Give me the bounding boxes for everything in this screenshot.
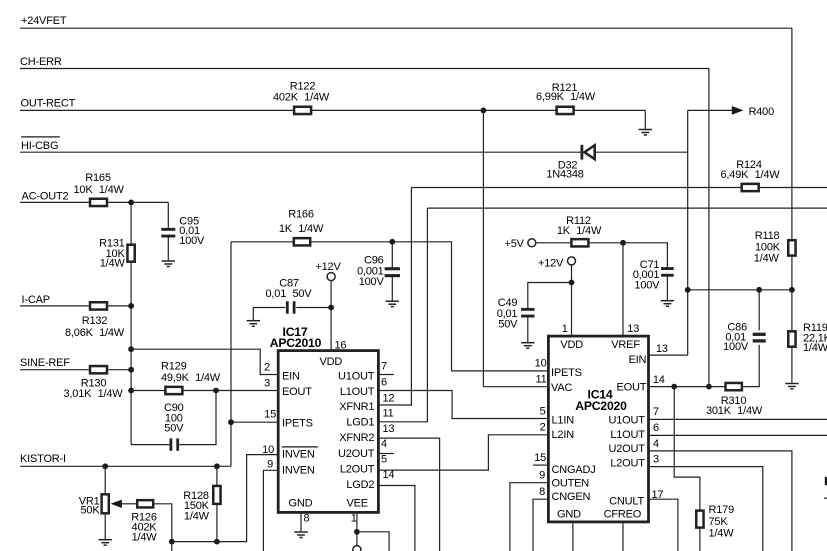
- wire pin13 XFNR2 down: [378, 438, 439, 551]
- wire VREF stem: [622, 243, 624, 336]
- wire IPETS vertical: [230, 242, 232, 466]
- svg-text:3: 3: [264, 377, 270, 389]
- wire pin11 LGD1 up to right edge: [378, 208, 427, 422]
- svg-text:5: 5: [540, 405, 546, 417]
- svg-text:7: 7: [653, 406, 659, 418]
- wire R166 to IC14 IPETS: [311, 242, 548, 371]
- ground below C95: [162, 260, 175, 262]
- wire +12V to VDD pin 1: [571, 265, 573, 337]
- svg-text:14: 14: [653, 374, 665, 386]
- node R118 bottom junction: [789, 287, 795, 293]
- wire VR1 top: [104, 466, 106, 494]
- svg-text:EOUT: EOUT: [617, 382, 647, 394]
- wire EOUT pin 14 to R310: [649, 386, 725, 388]
- svg-text:6: 6: [381, 376, 387, 388]
- wire R124 line: [411, 187, 827, 189]
- svg-text:I-CAP: I-CAP: [22, 294, 50, 306]
- svg-text:100V: 100V: [179, 235, 205, 247]
- potentiometer VR1: [102, 494, 109, 513]
- ground below R119: [785, 383, 798, 385]
- wire R310 to C86: [743, 345, 759, 387]
- svg-text:100K: 100K: [755, 241, 781, 253]
- wire KISTOR-I rail: [20, 465, 231, 467]
- wire junction to C49: [528, 283, 572, 310]
- wire EIN pin 13: [649, 354, 688, 356]
- wire R121 to ground: [574, 109, 645, 111]
- resistor R131: [127, 245, 134, 262]
- svg-text:VEE: VEE: [347, 497, 368, 509]
- node C87 junction: [328, 305, 334, 311]
- svg-text:402K 1/4W: 402K 1/4W: [273, 92, 330, 104]
- ground below IC17 pin 8: [294, 531, 307, 533]
- svg-text:EIN: EIN: [629, 354, 647, 366]
- svg-text:VAC: VAC: [551, 382, 572, 394]
- wire C96 stem bottom: [391, 276, 393, 301]
- wire OUT-RECT rail middle: [312, 109, 556, 111]
- ground after R121: [639, 129, 652, 131]
- ground below C96: [386, 300, 399, 302]
- node EOUT/CH-ERR junction: [706, 384, 712, 390]
- resistor R310: [726, 383, 742, 390]
- wire C96 stem top: [391, 242, 393, 269]
- svg-text:L1OUT: L1OUT: [610, 429, 645, 441]
- svg-text:7: 7: [381, 361, 387, 373]
- svg-text:R129: R129: [161, 361, 187, 373]
- svg-text:VDD: VDD: [319, 356, 342, 368]
- svg-text:XFNR1: XFNR1: [339, 401, 374, 413]
- resistor R128: [213, 486, 220, 504]
- wire I-CAP lead: [20, 305, 89, 307]
- diode D32: [581, 145, 584, 160]
- resistor R122: [294, 107, 311, 114]
- svg-text:16: 16: [335, 339, 347, 351]
- wire VAC to pin 11: [483, 386, 548, 388]
- svg-text:2: 2: [540, 422, 546, 434]
- wire HI-CBG rail left: [20, 151, 581, 153]
- svg-text:L2OUT: L2OUT: [610, 458, 645, 470]
- wire L1OUT pin 6 line: [649, 434, 827, 436]
- wire C71 stem bottom: [666, 276, 668, 300]
- wire pin6 L1OUT to IC14 L1IN: [378, 391, 548, 419]
- wire CNULT pin 17 down: [649, 499, 678, 551]
- wire VEE pin 1 stem: [356, 512, 358, 545]
- svg-text:301K 1/4W: 301K 1/4W: [706, 405, 763, 417]
- svg-text:1K 1/4W: 1K 1/4W: [279, 223, 324, 235]
- node EOUT wire junction: [128, 388, 134, 394]
- node KISTOR/R128 junction: [214, 463, 220, 469]
- svg-text:R165: R165: [85, 172, 111, 184]
- wire R179 link: [674, 387, 700, 510]
- node IPETS junction: [228, 419, 234, 425]
- resistor R166: [294, 238, 310, 245]
- terminal +5V circle: [528, 239, 536, 247]
- svg-text:+12V: +12V: [538, 257, 564, 269]
- node VREF junction: [620, 240, 626, 246]
- wire bottom rail to pin 10: [172, 455, 278, 542]
- op-amp U-block IC14 APC2020 box: [548, 336, 648, 522]
- wiper arrow of VR1: [122, 503, 137, 505]
- wire C90 loop left: [131, 444, 169, 446]
- svg-text:100V: 100V: [359, 276, 385, 288]
- wire R129 to EOUT pin 3: [184, 390, 279, 392]
- svg-text:1/4W: 1/4W: [803, 342, 827, 354]
- svg-text:HI-CBG: HI-CBG: [21, 140, 58, 152]
- wire SINE-REF lead: [20, 369, 89, 371]
- wire L2OUT pin 3 line: [649, 467, 763, 551]
- wire bus to R129: [131, 390, 164, 392]
- wire bus to EIN pin 2: [131, 349, 278, 374]
- wire pin9 INVEN down: [263, 470, 278, 551]
- op-amp U-block IC17 APC2010 box: [278, 351, 378, 513]
- svg-text:13: 13: [656, 343, 668, 355]
- svg-text:L2IN: L2IN: [552, 429, 575, 441]
- resistor R132: [90, 302, 107, 309]
- svg-text:1N4348: 1N4348: [546, 169, 583, 181]
- svg-text:5: 5: [381, 453, 387, 465]
- node VEE junction: [354, 529, 360, 535]
- wire R400 arrow lead: [688, 109, 733, 111]
- wire R128 top: [216, 466, 218, 485]
- node EOUT/R179 junction: [671, 384, 677, 390]
- svg-text:15: 15: [534, 452, 546, 464]
- svg-text:OUT-RECT: OUT-RECT: [21, 98, 76, 110]
- svg-text:U1OUT: U1OUT: [338, 371, 375, 383]
- svg-text:9: 9: [539, 470, 545, 482]
- svg-text:+24VFET: +24VFET: [21, 15, 67, 27]
- svg-text:R179: R179: [709, 504, 735, 516]
- svg-text:8,06K 1/4W: 8,06K 1/4W: [65, 327, 125, 339]
- wire CH-ERR vertical: [708, 69, 710, 387]
- node R128 bottom junction: [214, 539, 220, 545]
- svg-text:13: 13: [627, 323, 639, 335]
- wire junction to R119: [791, 290, 793, 330]
- svg-text:1K 1/4W: 1K 1/4W: [557, 225, 602, 237]
- svg-text:8: 8: [539, 486, 545, 498]
- svg-text:APC2020: APC2020: [575, 399, 627, 413]
- svg-text:CNULT: CNULT: [609, 496, 644, 508]
- wire R128 bottom: [216, 505, 218, 542]
- wire R126 to bottom wire: [154, 504, 172, 542]
- svg-text:INVEN: INVEN: [282, 449, 315, 461]
- svg-text:50K: 50K: [81, 505, 101, 517]
- wire C86 to top junction: [758, 290, 760, 331]
- svg-text:6,49K 1/4W: 6,49K 1/4W: [721, 169, 781, 181]
- svg-text:11: 11: [535, 373, 546, 385]
- resistor R179: [696, 511, 703, 528]
- wire R165 to C95 corner: [108, 201, 168, 203]
- svg-text:14: 14: [383, 469, 395, 481]
- wire +12V to VDD pin 16: [330, 280, 332, 350]
- svg-text:VDD: VDD: [560, 339, 583, 351]
- svg-text:CFREO: CFREO: [604, 508, 642, 520]
- svg-text:0,01 50V: 0,01 50V: [266, 288, 313, 300]
- wire GND pin 8 stem: [300, 512, 302, 531]
- node AC-OUT2 junction: [128, 200, 134, 206]
- svg-text:4: 4: [653, 438, 659, 450]
- resistor R119: [788, 331, 795, 346]
- svg-text:50V: 50V: [498, 319, 518, 331]
- svg-text:4: 4: [381, 438, 387, 450]
- svg-text:APC2010: APC2010: [270, 336, 322, 350]
- capacitor C95: [161, 228, 175, 231]
- node C96 junction: [389, 239, 395, 245]
- wire AC-OUT2 lead: [20, 201, 89, 203]
- wire pin9 OUTEN down: [510, 483, 549, 551]
- node C49 junction: [569, 280, 575, 286]
- svg-text:11: 11: [383, 408, 394, 420]
- svg-text:AC-OUT2: AC-OUT2: [22, 191, 69, 203]
- svg-text:12: 12: [383, 393, 395, 405]
- svg-text:CNGADJ: CNGADJ: [552, 464, 596, 476]
- svg-text:KISTOR-I: KISTOR-I: [20, 453, 66, 465]
- svg-text:EIN: EIN: [282, 371, 300, 383]
- svg-text:L1IN: L1IN: [552, 415, 575, 427]
- clipped label right edge: [825, 477, 827, 485]
- wire +5V to R112: [536, 242, 571, 244]
- svg-text:10K 1/4W: 10K 1/4W: [73, 184, 124, 196]
- svg-text:1: 1: [562, 323, 568, 335]
- node C86 top junction: [756, 287, 762, 293]
- svg-text:50V: 50V: [164, 422, 184, 434]
- ground below C71: [661, 300, 674, 302]
- svg-text:LGD1: LGD1: [346, 417, 374, 429]
- svg-text:3,01K 1/4W: 3,01K 1/4W: [64, 388, 124, 400]
- terminal +12V circle IC17: [327, 273, 335, 281]
- wire R166 left: [231, 241, 293, 243]
- svg-text:100V: 100V: [723, 341, 749, 353]
- capacitor C87 right wire: [296, 307, 331, 309]
- capacitor C86: [753, 333, 766, 336]
- node EIN wire junction: [128, 346, 134, 352]
- ground below VR1: [99, 539, 112, 541]
- svg-text:INVEN: INVEN: [282, 465, 315, 477]
- capacitor C90: [169, 438, 172, 450]
- svg-text:1/4W: 1/4W: [100, 258, 126, 270]
- svg-text:L2OUT: L2OUT: [340, 464, 375, 476]
- svg-text:15: 15: [264, 408, 276, 420]
- wire C90 loop right: [179, 391, 216, 445]
- wire R118 net horizontal: [688, 289, 792, 291]
- svg-text:R400: R400: [749, 106, 775, 118]
- svg-text:49,9K 1/4W: 49,9K 1/4W: [161, 372, 221, 384]
- wire left bus vertical lower: [130, 263, 132, 445]
- svg-text:GND: GND: [557, 508, 581, 520]
- wire R179 bottom: [699, 529, 701, 551]
- node SINE-REF junction: [128, 367, 134, 373]
- svg-text:R132: R132: [82, 315, 108, 327]
- node KISTOR/VR1 junction: [102, 463, 108, 469]
- svg-text:EOUT: EOUT: [282, 386, 312, 398]
- svg-text:75K: 75K: [709, 516, 729, 528]
- svg-text:1: 1: [351, 513, 357, 525]
- resistor R118: [788, 240, 795, 255]
- terminal circle below VEE: [353, 546, 361, 551]
- wire +24VFET vertical right: [791, 28, 793, 239]
- wire LGD1 line to right edge: [427, 207, 827, 209]
- wire C95 stem top: [167, 202, 169, 229]
- svg-text:6: 6: [653, 422, 659, 434]
- svg-text:10: 10: [535, 357, 547, 369]
- node OUT-RECT/VAC junction: [481, 108, 487, 114]
- svg-text:+12V: +12V: [315, 261, 341, 273]
- wire R130 to bus: [108, 369, 131, 371]
- svg-text:100V: 100V: [634, 280, 660, 292]
- svg-text:CNGEN: CNGEN: [552, 491, 591, 503]
- node R118 net left junction: [685, 287, 691, 293]
- wire R132 to bus: [108, 305, 131, 307]
- resistor R121: [557, 107, 574, 114]
- svg-text:VREF: VREF: [611, 339, 640, 351]
- resistor R112: [571, 239, 588, 246]
- wire C95 stem bottom: [167, 237, 169, 261]
- wire below R126 junction: [171, 542, 173, 551]
- wire R112 to C71: [589, 243, 667, 268]
- svg-text:GND: GND: [289, 497, 313, 509]
- pin 4 stub U2OUT: [378, 453, 393, 455]
- wire OUT-RECT rail left: [20, 109, 293, 111]
- resistor R129: [165, 387, 182, 394]
- wire D32 to R400 vertical: [595, 151, 688, 153]
- svg-text:1/4W: 1/4W: [754, 253, 780, 265]
- svg-text:1/4W: 1/4W: [132, 532, 158, 544]
- node I-CAP junction: [128, 303, 134, 309]
- resistor R126: [137, 500, 153, 507]
- resistor R130: [90, 366, 107, 373]
- svg-text:L1OUT: L1OUT: [340, 386, 375, 398]
- svg-text:+5V: +5V: [505, 238, 525, 250]
- capacitor C49: [521, 308, 534, 311]
- wire pin8 CNGEN down: [533, 499, 548, 551]
- svg-text:17: 17: [652, 489, 664, 501]
- node R126 bottom junction: [169, 539, 175, 545]
- capacitor C71: [661, 267, 674, 270]
- wire +24VFET rail: [20, 27, 792, 29]
- wire C49 stem bottom: [527, 316, 529, 342]
- svg-text:1/4W: 1/4W: [709, 528, 735, 540]
- svg-text:2: 2: [264, 361, 270, 373]
- wire R400 vertical: [687, 110, 689, 355]
- svg-text:9: 9: [267, 459, 273, 471]
- wire VEE junction right down: [357, 532, 389, 551]
- wire pin5 L2OUT to IC14 L2IN: [378, 435, 548, 470]
- wire pin12 XFNR1 up to R124 line: [378, 188, 411, 406]
- svg-text:LGD2: LGD2: [346, 479, 374, 491]
- wire R119 to ground: [791, 348, 793, 383]
- svg-text:6,99K 1/4W: 6,99K 1/4W: [536, 91, 596, 103]
- ground below C49: [521, 342, 534, 344]
- ground below C87: [247, 320, 260, 322]
- svg-text:OUTEN: OUTEN: [552, 478, 590, 490]
- wire CH-ERR rail: [20, 68, 709, 70]
- svg-text:SINE-REF: SINE-REF: [20, 357, 70, 369]
- svg-text:U2OUT: U2OUT: [338, 448, 375, 460]
- wire IC14 CFREO stem: [622, 522, 624, 551]
- svg-text:IPETS: IPETS: [551, 367, 582, 379]
- capacitor C87 left wire: [253, 308, 285, 321]
- svg-text:8: 8: [304, 513, 310, 525]
- svg-text:13: 13: [383, 423, 395, 435]
- wire left bus vertical upper: [130, 202, 132, 244]
- wire VR1 bottom: [104, 514, 106, 539]
- wire U1OUT pin 7 line: [649, 418, 827, 420]
- wire pin14 LGD2 down: [378, 486, 415, 551]
- pin 15 stub CNGADJ: [533, 464, 548, 466]
- resistor R124: [742, 184, 759, 191]
- svg-text:CH-ERR: CH-ERR: [20, 56, 62, 68]
- svg-text:XFNR2: XFNR2: [339, 432, 374, 444]
- node R129/C90 junction: [213, 388, 219, 394]
- svg-text:U2OUT: U2OUT: [609, 443, 646, 455]
- svg-text:1/4W: 1/4W: [184, 511, 210, 523]
- capacitor C87: [286, 301, 289, 313]
- wire IC14 GND stem: [572, 522, 574, 551]
- wire IPETS to pin 15: [231, 421, 278, 423]
- pin 7 stub U1OUT: [378, 374, 393, 376]
- wire U2OUT pin 4 line: [649, 451, 792, 551]
- svg-text:3: 3: [653, 454, 659, 466]
- wire VAC vertical: [482, 110, 484, 386]
- svg-text:R166: R166: [288, 208, 314, 220]
- svg-text:10: 10: [262, 444, 274, 456]
- terminal +12V circle IC14: [568, 257, 576, 265]
- capacitor C96: [385, 267, 400, 270]
- svg-text:IPETS: IPETS: [282, 417, 313, 429]
- wire R118 to junction: [791, 257, 793, 290]
- arrow to R400: [732, 106, 744, 115]
- resistor R165: [90, 199, 107, 206]
- svg-text:U1OUT: U1OUT: [609, 415, 646, 427]
